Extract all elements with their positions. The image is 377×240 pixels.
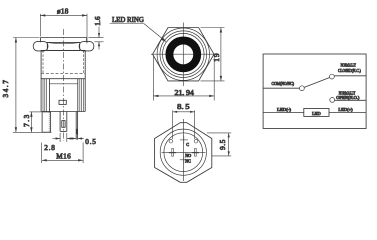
dim M16	[42, 143, 83, 164]
switch lever	[304, 78, 330, 88]
svg-text:NORMALLY: NORMALLY	[341, 63, 356, 68]
node NO terminal	[330, 98, 335, 103]
wire NO	[334, 99, 366, 101]
wire COM	[263, 87, 299, 89]
bottom view: NC pin	[180, 156, 188, 163]
lower housing	[41, 79, 85, 112]
bezel hex head side view	[33, 42, 93, 51]
node COM terminal	[300, 86, 305, 91]
center pin (2.8)	[60, 112, 67, 132]
bottom view: crosshair	[162, 119, 206, 181]
top hex view: crosshair	[151, 23, 216, 87]
svg-text:2.8: 2.8	[44, 144, 55, 152]
svg-text:C: C	[186, 142, 189, 147]
thin pin (0.5)	[76, 112, 77, 140]
dim ø18	[40, 14, 87, 44]
dim 9.5	[207, 133, 231, 156]
dim 21.94	[153, 57, 214, 101]
svg-text:LED: LED	[312, 111, 321, 116]
svg-text:21. 94: 21. 94	[175, 89, 195, 97]
bottom view: body circles	[160, 129, 206, 175]
svg-text:NO: NO	[185, 153, 191, 158]
svg-text:8. 5: 8. 5	[177, 103, 190, 111]
svg-text:LED RING: LED RING	[112, 16, 144, 24]
svg-text:NC: NC	[185, 159, 191, 164]
bottom view: C pin	[180, 136, 188, 144]
dim 0.5	[70, 137, 84, 139]
threaded body M16	[41, 50, 85, 78]
cap top (button plunger)	[41, 38, 87, 43]
LED RING label	[110, 24, 167, 43]
bottom block (side lug)	[42, 112, 51, 132]
svg-text:1.6: 1.6	[94, 16, 102, 26]
node NC terminal	[330, 74, 335, 79]
svg-text:19: 19	[213, 52, 221, 62]
top hex view: hexagon	[153, 28, 214, 81]
svg-text:CLOSED(N.C.): CLOSED(N.C.)	[338, 68, 361, 73]
housing slot detail	[59, 100, 66, 104]
dim 8.5	[173, 110, 195, 139]
svg-text:9.5: 9.5	[219, 139, 227, 150]
svg-text:COM(NO/NC): COM(NO/NC)	[272, 81, 295, 86]
svg-text:LED(-): LED(-)	[277, 107, 292, 112]
dim 1.6	[89, 27, 104, 50]
dim 7.3	[13, 112, 52, 132]
dim 2.8	[53, 133, 75, 142]
top hex view: LED ring (black)	[169, 41, 197, 69]
svg-text:OPEN(N.O.): OPEN(N.O.)	[336, 95, 360, 100]
side view centerline	[63, 29, 65, 141]
svg-text:M16: M16	[56, 153, 71, 161]
bottom view: left lamp pin	[169, 148, 176, 156]
bottom view: LED pin holes	[169, 139, 198, 143]
svg-text:0.5: 0.5	[85, 138, 96, 146]
top hex view: chamfer + cap circles	[157, 28, 209, 80]
svg-text:7.3: 7.3	[23, 113, 31, 127]
svg-text:ø18: ø18	[57, 8, 69, 16]
bottom view: right lamp pin	[192, 148, 199, 156]
LED component box	[304, 109, 329, 117]
dim 19	[201, 28, 225, 81]
svg-text:LED(+): LED(+)	[338, 107, 353, 112]
schematic box	[263, 54, 366, 129]
bottom view: NO pin	[180, 151, 188, 153]
wire LED row	[263, 112, 366, 114]
dim 34.7	[13, 38, 40, 133]
bottom view: hexagon (point-up, small vertex flats)	[155, 123, 212, 183]
wire NC	[334, 75, 366, 77]
svg-text:34.7: 34.7	[2, 79, 10, 98]
